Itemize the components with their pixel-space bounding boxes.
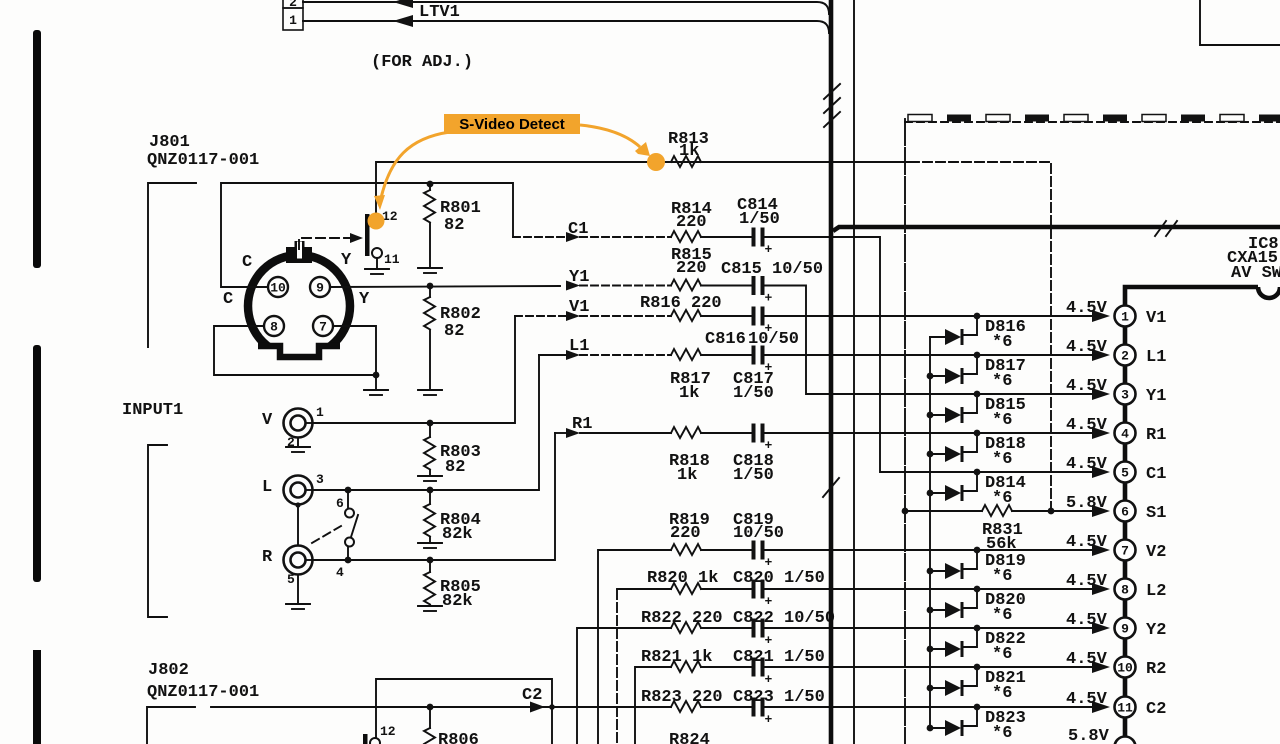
svg-text:10: 10 <box>270 281 286 296</box>
svg-text:R816 220: R816 220 <box>640 294 722 313</box>
diode D818 *6 <box>930 453 945 455</box>
node Y1 row <box>566 281 580 291</box>
IC pin 3 Y1 <box>1092 388 1110 400</box>
svg-text:4: 4 <box>1121 427 1129 442</box>
resistor R802 82 <box>427 283 434 290</box>
svg-text:C823 1/50: C823 1/50 <box>733 688 825 707</box>
svg-text:*6: *6 <box>992 684 1012 703</box>
svg-text:9: 9 <box>316 281 324 296</box>
registration bar 1 <box>33 30 41 268</box>
capacitor C819 10/50 <box>752 541 756 560</box>
svg-text:R824: R824 <box>669 731 710 744</box>
svg-text:10: 10 <box>1117 661 1133 676</box>
wire LTV1 upper <box>303 2 829 14</box>
svg-text:S-Video Detect: S-Video Detect <box>459 116 565 133</box>
diode D816 *6 <box>930 336 945 338</box>
svg-text:9: 9 <box>1121 622 1129 637</box>
svg-text:4.5V: 4.5V <box>1066 338 1108 357</box>
wire pin 8 loop <box>214 326 376 375</box>
shield wall segments <box>908 115 932 122</box>
wire L jack row <box>313 355 539 490</box>
node C1 row <box>513 236 566 238</box>
svg-text:C2: C2 <box>1146 700 1166 719</box>
resistor R803 82 <box>429 423 431 437</box>
svg-text:Y: Y <box>341 251 352 270</box>
svg-text:LTV1: LTV1 <box>419 3 460 22</box>
svg-text:1/50: 1/50 <box>733 466 774 485</box>
svg-text:5.8V: 5.8V <box>1068 727 1110 744</box>
svg-text:8: 8 <box>270 320 278 335</box>
ground V jack <box>297 438 299 447</box>
svg-text:+: + <box>765 291 773 306</box>
svg-text:C1: C1 <box>1146 465 1166 484</box>
svg-text:*6: *6 <box>992 450 1012 469</box>
svg-text:*6: *6 <box>992 724 1012 743</box>
thick bus vertical <box>829 0 834 744</box>
svg-text:82: 82 <box>444 322 464 341</box>
connector pin box 2 <box>283 0 303 8</box>
svg-text:Y: Y <box>359 290 370 309</box>
svg-text:+: + <box>765 438 773 453</box>
svg-text:4.5V: 4.5V <box>1066 690 1108 709</box>
DIN pin 8 <box>264 316 284 336</box>
svg-text:1k: 1k <box>677 466 697 485</box>
IC pin 11 C2 <box>1092 701 1110 713</box>
resistor R814 220 <box>671 231 701 242</box>
wire LTV1 lower <box>303 21 829 33</box>
wire R1 row to IC pin4 <box>765 432 1093 434</box>
wire C loop <box>221 183 513 287</box>
svg-text:3: 3 <box>316 472 324 487</box>
IC pin 10 R2 <box>1092 661 1110 673</box>
svg-text:4.5V: 4.5V <box>1066 455 1108 474</box>
svg-text:*6: *6 <box>992 606 1012 625</box>
svg-text:82: 82 <box>444 216 464 235</box>
diode D814 *6 <box>930 492 945 494</box>
resistor R806 <box>427 704 434 711</box>
svg-text:5.8V: 5.8V <box>1066 494 1108 513</box>
node R2 row / resistor R821 1k <box>635 667 671 744</box>
capacitor C818 1/50 <box>752 424 756 443</box>
svg-text:R806: R806 <box>438 731 479 744</box>
svg-text:R: R <box>262 548 273 567</box>
node V2 row / resistor R819 220 <box>598 550 671 744</box>
RCA jack R <box>284 546 313 575</box>
pin 11 contact <box>372 248 382 258</box>
wire R jack row <box>313 433 555 560</box>
svg-text:+: + <box>765 242 773 257</box>
svg-text:2: 2 <box>1121 349 1129 364</box>
svg-text:S1: S1 <box>1146 504 1166 523</box>
svg-text:1: 1 <box>289 13 297 28</box>
resistor R816 220 <box>580 315 671 317</box>
svg-text:6: 6 <box>336 496 344 511</box>
orange node pin 12 <box>368 213 385 230</box>
node C2 row / resistor R823 220 <box>211 706 671 708</box>
capacitor C817 1/50 <box>752 346 756 365</box>
capacitor C820 1/50 <box>752 580 756 599</box>
svg-text:V1: V1 <box>569 298 589 317</box>
svg-text:QNZ0117-001: QNZ0117-001 <box>147 683 259 702</box>
switch S801 between L and R <box>347 490 349 509</box>
svg-text:1: 1 <box>1121 310 1129 325</box>
svg-text:12: 12 <box>380 724 396 739</box>
diode D821 *6 <box>930 687 945 689</box>
svg-text:R820 1k: R820 1k <box>647 569 718 588</box>
svg-text:4.5V: 4.5V <box>1066 416 1108 435</box>
node L1 row <box>539 354 566 356</box>
wire L1 row to IC pin2 <box>765 354 1093 356</box>
svg-text:J802: J802 <box>148 661 189 680</box>
registration bar 3 <box>33 650 41 744</box>
wire Y from pin 9 <box>330 286 560 287</box>
DIN pin 7 <box>313 316 333 336</box>
wire V1 row to IC pin1 <box>765 315 1093 317</box>
svg-text:*6: *6 <box>992 411 1012 430</box>
svg-text:11: 11 <box>1117 701 1133 716</box>
svg-text:C: C <box>223 290 233 309</box>
svg-text:4: 4 <box>336 565 344 580</box>
thick bus horizontal <box>833 227 1280 231</box>
svg-text:Y1: Y1 <box>1146 387 1166 406</box>
svg-text:Y2: Y2 <box>1146 621 1166 640</box>
connector pin box 1 <box>283 8 303 30</box>
svg-text:1/50: 1/50 <box>739 210 780 229</box>
wire Y1 row to IC <box>765 286 1093 395</box>
svg-text:AV SW: AV SW <box>1231 264 1280 283</box>
svg-text:+: + <box>765 555 773 570</box>
S-video DIN connector J801 body <box>248 255 350 357</box>
IC pin 6 S1 <box>1092 505 1110 517</box>
svg-text:220: 220 <box>670 524 701 543</box>
svg-text:82k: 82k <box>442 525 473 544</box>
wire V jack row <box>313 316 515 423</box>
svg-text:1k: 1k <box>679 384 699 403</box>
diode D820 *6 <box>930 609 945 611</box>
svg-text:5: 5 <box>1121 466 1129 481</box>
wire J802 detect loop <box>376 679 552 744</box>
IC pin 5 C1 <box>1092 466 1110 478</box>
hatch mark lower <box>823 478 839 497</box>
IC pin 9 Y2 <box>1092 622 1110 634</box>
svg-text:*6: *6 <box>992 372 1012 391</box>
IC pin 4 R1 <box>1092 427 1110 439</box>
svg-text:220: 220 <box>676 259 707 278</box>
svg-text:1: 1 <box>316 405 324 420</box>
svg-text:R2: R2 <box>1146 660 1166 679</box>
orange arrow to pin 12 <box>381 132 450 198</box>
svg-text:220: 220 <box>676 213 707 232</box>
ground R jack <box>297 575 299 604</box>
IC pin 2 L1 <box>1092 349 1110 361</box>
svg-text:J801: J801 <box>149 133 190 152</box>
diode D819 *6 <box>930 570 945 572</box>
svg-text:R1: R1 <box>1146 426 1166 445</box>
svg-text:10/50: 10/50 <box>733 524 784 543</box>
resistor R805 82k <box>429 560 431 572</box>
wire L-R shield link <box>297 505 299 546</box>
svg-text:C815 10/50: C815 10/50 <box>721 260 823 279</box>
diode D815 *6 <box>930 414 945 416</box>
svg-text:*6: *6 <box>992 333 1012 352</box>
svg-text:C1: C1 <box>568 220 588 239</box>
svg-text:R823 220: R823 220 <box>641 688 723 707</box>
switch contact bar J802 pin 12 <box>363 734 368 744</box>
resistor R801 82 <box>427 181 434 188</box>
svg-text:+: + <box>765 594 773 609</box>
S-Video Detect callout box <box>444 114 580 134</box>
bracket J802 <box>147 707 195 744</box>
svg-text:*6: *6 <box>992 489 1012 508</box>
svg-text:4.5V: 4.5V <box>1066 572 1108 591</box>
corner box top right <box>1200 0 1280 45</box>
DIN pin 10 <box>268 277 288 297</box>
wire detect dashed to S1 <box>910 162 1051 511</box>
IC pin 7 V2 <box>1092 544 1110 556</box>
svg-text:1/50: 1/50 <box>733 384 774 403</box>
shield dashed wall top <box>905 121 1280 123</box>
svg-text:4.5V: 4.5V <box>1066 377 1108 396</box>
svg-text:+: + <box>765 633 773 648</box>
capacitor C821 1/50 <box>752 658 756 677</box>
svg-text:4.5V: 4.5V <box>1066 299 1108 318</box>
svg-text:11: 11 <box>384 252 400 267</box>
svg-text:L: L <box>262 478 272 497</box>
resistor R815 220 <box>671 280 701 291</box>
wire pin 7 <box>333 326 376 375</box>
shield boundary vertical 905 <box>904 119 906 744</box>
svg-text:C: C <box>242 253 252 272</box>
svg-text:*6: *6 <box>992 567 1012 586</box>
svg-text:1k: 1k <box>679 142 699 161</box>
wire S-video detect from pin 12 <box>376 162 910 222</box>
diode D823 *6 <box>930 727 945 729</box>
svg-text:8: 8 <box>1121 583 1129 598</box>
wire C1 row to IC <box>765 237 1093 472</box>
svg-text:*6: *6 <box>992 645 1012 664</box>
svg-text:5: 5 <box>287 572 295 587</box>
bracket J801 <box>148 183 196 347</box>
svg-text:6: 6 <box>1121 505 1129 520</box>
RCA jack L <box>284 476 313 505</box>
svg-text:C821 1/50: C821 1/50 <box>733 648 825 667</box>
svg-text:Y1: Y1 <box>569 268 589 287</box>
svg-text:82k: 82k <box>442 592 473 611</box>
capacitor C816 10/50 <box>752 307 756 326</box>
capacitor C814 1/50 <box>752 228 756 247</box>
capacitor C823 1/50 <box>752 698 756 717</box>
node V1 row <box>515 315 566 317</box>
resistor R818 1k <box>580 432 671 434</box>
svg-text:L1: L1 <box>569 337 589 356</box>
svg-text:QNZ0117-001: QNZ0117-001 <box>147 151 259 170</box>
svg-text:V2: V2 <box>1146 543 1166 562</box>
orange node R813 wire <box>647 153 665 171</box>
diode anode bus <box>929 337 931 728</box>
svg-text:C2: C2 <box>522 686 542 705</box>
hatch marks on bus <box>1155 221 1177 236</box>
node S1 row <box>902 508 909 515</box>
resistor R804 82k <box>429 490 431 504</box>
orange arrow to R813 node <box>580 125 640 147</box>
svg-text:7: 7 <box>1121 544 1129 559</box>
svg-text:R822 220: R822 220 <box>641 609 723 628</box>
svg-text:C816: C816 <box>705 330 746 349</box>
DIN pin 9 <box>310 277 330 297</box>
IC pin 1 V1 <box>1092 310 1110 322</box>
hatch marks top <box>824 84 840 127</box>
IC8 outline <box>1125 287 1258 744</box>
RCA jack V <box>284 409 313 438</box>
bracket INPUT1 <box>148 445 167 617</box>
svg-text:L1: L1 <box>1146 348 1166 367</box>
svg-text:+: + <box>765 712 773 727</box>
ground pin 11 <box>376 258 378 268</box>
svg-text:4.5V: 4.5V <box>1066 650 1108 669</box>
resistor R831 56k <box>982 505 1012 516</box>
svg-text:R1: R1 <box>572 415 592 434</box>
svg-text:V: V <box>262 411 273 430</box>
svg-text:4.5V: 4.5V <box>1066 533 1108 552</box>
svg-text:7: 7 <box>319 320 327 335</box>
capacitor C815 10/50 <box>752 276 756 295</box>
svg-text:4.5V: 4.5V <box>1066 611 1108 630</box>
switch contact bar pin 12 <box>365 214 370 256</box>
node R1 row <box>555 432 566 434</box>
node Y2 row / resistor R822 220 <box>577 628 671 744</box>
svg-text:INPUT1: INPUT1 <box>122 401 183 420</box>
svg-text:10/50: 10/50 <box>748 330 799 349</box>
svg-text:V1: V1 <box>1146 309 1166 328</box>
bus vertical 854 <box>853 0 855 744</box>
diode D817 *6 <box>930 375 945 377</box>
svg-text:L2: L2 <box>1146 582 1166 601</box>
ground pins 7/8 <box>375 375 377 389</box>
svg-text:C822 10/50: C822 10/50 <box>733 609 835 628</box>
svg-text:R821 1k: R821 1k <box>641 648 712 667</box>
svg-text:C820 1/50: C820 1/50 <box>733 569 825 588</box>
svg-text:(FOR ADJ.): (FOR ADJ.) <box>371 53 473 72</box>
capacitor C822 10/50 <box>752 619 756 638</box>
svg-text:82: 82 <box>445 458 465 477</box>
diode D822 *6 <box>930 648 945 650</box>
registration bar 2 <box>33 345 41 582</box>
resistor R813 1k <box>671 156 701 167</box>
IC pin 8 L2 <box>1092 583 1110 595</box>
node L2 row / resistor R820 1k <box>616 590 618 744</box>
switch actuator dashed <box>299 238 350 249</box>
svg-text:+: + <box>765 672 773 687</box>
resistor R817 1k <box>580 354 671 356</box>
svg-text:3: 3 <box>1121 388 1129 403</box>
